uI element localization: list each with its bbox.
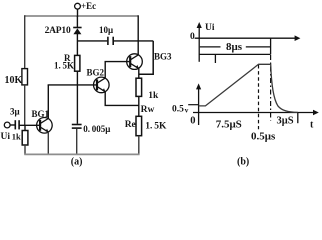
left rail wire (24, 15, 26, 69)
svg-text:1k: 1k (148, 91, 159, 101)
pulse bottom (199, 53, 270, 55)
svg-text:BG3: BG3 (154, 52, 172, 62)
svg-text:(b): (b) (237, 156, 249, 167)
0.5V level tick (172, 104, 199, 114)
Ui axis (197, 22, 215, 62)
svg-text:10K: 10K (5, 75, 23, 86)
svg-text:8μs: 8μs (226, 41, 243, 53)
resistor Rw 1k (136, 78, 159, 115)
t axis (lower) (190, 110, 319, 131)
resistor 1k (input) (12, 125, 28, 154)
wire top right corner down to BG3 collector (137, 15, 139, 55)
transistor BG1 (32, 109, 53, 133)
wire Rw to Re (138, 96, 140, 116)
wire BG1 collector (47, 85, 49, 119)
svg-text:0: 0 (190, 32, 195, 42)
wire Re to bus (138, 136, 140, 155)
resistor R 1.5K (54, 53, 80, 71)
svg-text:0: 0 (190, 116, 195, 127)
wire input node to BG1 base (20, 124, 41, 126)
pulse right edge (270, 38, 272, 54)
svg-text:3μS: 3μS (277, 115, 294, 126)
bootstrap return wire (139, 41, 154, 74)
tick at sweep end (297, 113, 299, 124)
svg-text:+Ec: +Ec (81, 1, 96, 11)
dashed marker 7.5us (258, 65, 260, 129)
resistor 10K (5, 69, 28, 86)
ground bus wire (24, 153, 139, 155)
output axis (196, 83, 201, 125)
transistor BG2 (87, 68, 110, 93)
input terminal Ui (1, 122, 16, 142)
wire BG2 emitter to Rw/Re junction (105, 92, 139, 106)
t axis (upper) (190, 32, 300, 42)
wire BG1 collector to BG2 base (48, 84, 97, 86)
svg-text:2AP10: 2AP10 (45, 26, 71, 36)
svg-text:Ui: Ui (205, 23, 215, 33)
capacitor 3u (10, 106, 20, 129)
svg-text:0.5: 0.5 (172, 104, 184, 114)
+Ec terminal (75, 1, 97, 17)
svg-text:BG2: BG2 (87, 68, 105, 78)
wire BG3 emitter down (138, 68, 140, 78)
svg-text:10μ: 10μ (99, 25, 113, 35)
8us dimension line (200, 41, 271, 53)
resistor Re 1.5K (125, 116, 167, 135)
transistor BG3 (127, 52, 172, 70)
capacitor 0.005u (72, 124, 111, 155)
svg-text:3μ: 3μ (10, 106, 20, 116)
svg-text:Ui: Ui (1, 132, 11, 142)
svg-text:Rw: Rw (141, 105, 155, 115)
svg-text:BG1: BG1 (32, 109, 50, 119)
svg-text:1k: 1k (12, 131, 21, 141)
svg-text:1. 5K: 1. 5K (145, 122, 167, 132)
capacitor 10u bootstrap (77, 25, 153, 45)
sawtooth waveform (199, 64, 298, 112)
wire left rail lower (24, 85, 26, 126)
svg-text:v: v (185, 106, 189, 115)
svg-text:7.5μS: 7.5μS (216, 118, 242, 130)
svg-text:0. 005μ: 0. 005μ (83, 124, 110, 134)
wire BG1 emitter to bus (47, 132, 49, 155)
power rail +Ec top wire (25, 15, 139, 17)
svg-text:Re: Re (125, 120, 136, 130)
svg-text:1. 5K: 1. 5K (54, 61, 74, 71)
svg-text:0.5μs: 0.5μs (251, 131, 276, 143)
pulse tick (214, 54, 216, 63)
dash-dot marker 8us (270, 55, 272, 121)
diode 2AP10 (45, 16, 82, 56)
wire BG2 collector to BG3 base (105, 62, 130, 79)
svg-text:(a): (a) (71, 157, 83, 168)
node wire (diode/R column down to timing cap) (76, 71, 78, 124)
